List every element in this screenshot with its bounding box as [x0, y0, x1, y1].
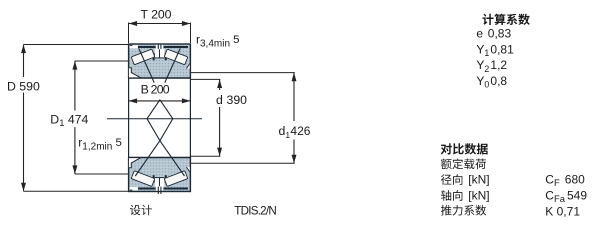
dimension D 590 left [24, 45, 130, 192]
svg-text:d: d [216, 93, 223, 107]
svg-text:D 590: D 590 [7, 80, 40, 94]
svg-text:680: 680 [565, 173, 585, 187]
svg-text:0,83: 0,83 [488, 26, 512, 40]
dimension d 390 [191, 79, 220, 156]
svg-text:[kN]: [kN] [468, 173, 489, 187]
svg-text:426: 426 [290, 124, 310, 138]
row 推力系数 / K 0,71 [441, 205, 486, 216]
label 设计 (design) [130, 205, 152, 216]
svg-text:TDIS.2/N: TDIS.2/N [234, 204, 276, 217]
contact line top-right roller [165, 49, 180, 83]
svg-text:1,2: 1,2 [490, 58, 507, 72]
svg-text:K 0,71: K 0,71 [545, 204, 580, 218]
svg-text:390: 390 [227, 93, 248, 107]
bearing lower half section [129, 158, 191, 192]
svg-text:B 200: B 200 [141, 83, 170, 97]
header 对比数据 [441, 143, 488, 154]
svg-text:T 200: T 200 [141, 7, 172, 21]
header 计算系数 [483, 14, 530, 25]
svg-text:D1 474: D1 474 [50, 112, 88, 128]
row 轴向 [kN] / CFa 549 [441, 190, 462, 201]
row 径向 [kN] / CF 680 [441, 174, 463, 185]
dimension d1 426 [191, 73, 295, 164]
svg-text:[kN]: [kN] [468, 188, 489, 202]
axis center line [107, 118, 202, 120]
bearing upper half section [129, 44, 191, 78]
bearing side edges through bore region [129, 78, 191, 158]
contact line top-left roller [139, 49, 154, 83]
row 额定载荷 [441, 159, 486, 170]
dimension T 200 top [129, 23, 191, 44]
svg-text:e: e [476, 26, 483, 40]
dimension D1 474 [75, 61, 129, 174]
svg-text:0,8: 0,8 [490, 74, 507, 88]
svg-text:549: 549 [567, 188, 587, 202]
crossing legs to lower rollers [147, 119, 185, 176]
dimension B 200 [129, 100, 191, 102]
pressure-cone diamond upper sides [147, 100, 173, 119]
svg-text:0,81: 0,81 [490, 42, 514, 56]
center split lines below bottom face [158, 192, 161, 195]
